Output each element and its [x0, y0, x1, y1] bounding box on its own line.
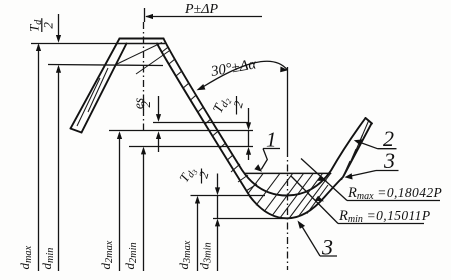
svg-text:dmax: dmax: [17, 245, 34, 269]
svg-text:30°±Δα: 30°±Δα: [209, 56, 259, 80]
svg-text:1: 1: [266, 128, 277, 152]
svg-text:d2max: d2max: [98, 240, 115, 269]
svg-text:Rmin =0,15011P: Rmin =0,15011P: [338, 208, 430, 225]
svg-text:2: 2: [231, 100, 246, 110]
svg-text:d3min: d3min: [197, 242, 214, 269]
svg-text:2: 2: [196, 170, 211, 180]
svg-text:3: 3: [321, 235, 333, 260]
svg-text:P±ΔP: P±ΔP: [184, 2, 218, 17]
svg-text:d2min: d2min: [122, 242, 139, 269]
svg-text:d3max: d3max: [176, 240, 193, 269]
svg-text:2: 2: [138, 100, 153, 107]
svg-text:dmin: dmin: [39, 248, 56, 270]
svg-text:2: 2: [41, 22, 56, 29]
svg-text:3: 3: [383, 148, 395, 173]
svg-text:Rmax =0,18042P: Rmax =0,18042P: [347, 185, 442, 202]
